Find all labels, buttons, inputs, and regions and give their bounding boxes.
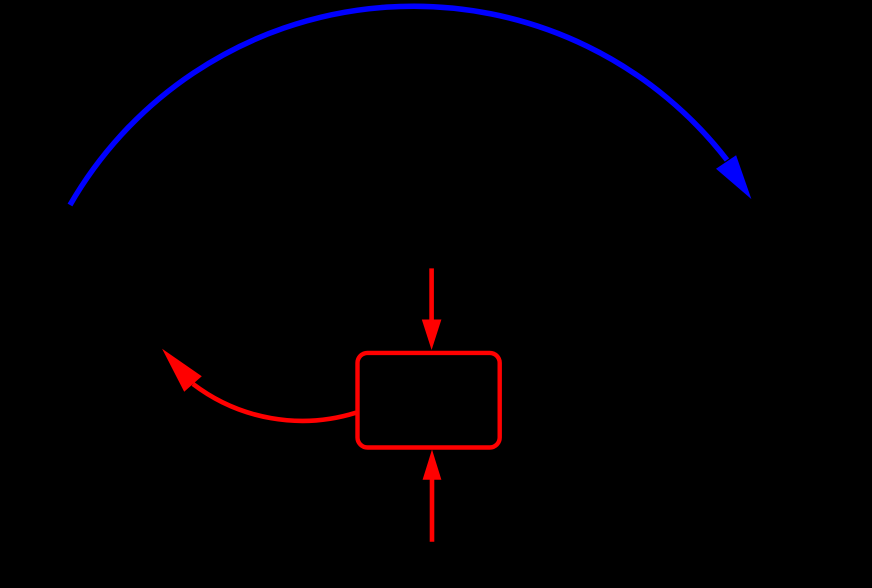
red box — [358, 353, 500, 448]
red curved arrow from box to upper left — [162, 349, 356, 421]
blue arc arrow (trajectory) — [70, 6, 751, 205]
red arrow into box from bottom — [423, 450, 442, 542]
red arrow into box from top — [422, 268, 442, 350]
